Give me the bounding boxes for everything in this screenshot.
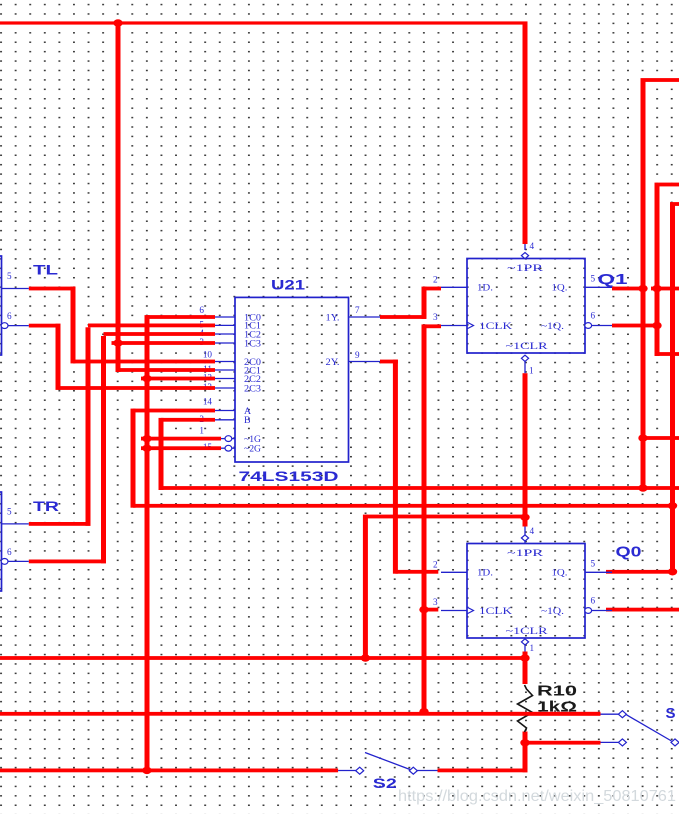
svg-text:1: 1 (199, 426, 204, 436)
svg-text:1: 1 (529, 366, 534, 376)
svg-text:6: 6 (591, 595, 596, 605)
svg-text:~1CLR: ~1CLR (506, 341, 549, 352)
svg-text:2Y.: 2Y. (326, 357, 340, 368)
svg-text:~1Q.: ~1Q. (541, 606, 564, 617)
svg-text:3: 3 (433, 312, 438, 322)
svg-text:1: 1 (530, 643, 535, 653)
svg-text:1D.: 1D. (477, 283, 493, 294)
svg-text:B: B (244, 415, 251, 426)
svg-text:~1CLR: ~1CLR (506, 626, 549, 637)
svg-text:6: 6 (7, 311, 12, 321)
svg-text:TR: TR (33, 499, 59, 514)
svg-text:9: 9 (355, 350, 360, 360)
svg-text:1Q.: 1Q. (552, 568, 568, 579)
svg-text:6: 6 (199, 305, 204, 315)
svg-text:6: 6 (591, 310, 596, 320)
svg-text:1C3: 1C3 (244, 338, 261, 349)
svg-text:4: 4 (530, 526, 535, 536)
svg-text:R10: R10 (537, 684, 577, 700)
svg-text:5: 5 (7, 506, 12, 516)
svg-text:1CLK: 1CLK (479, 606, 512, 617)
svg-text:TL: TL (33, 263, 58, 278)
svg-text:https://blog.csdn.net/weixin_5: https://blog.csdn.net/weixin_50810761 (398, 788, 676, 805)
svg-text:1Q.: 1Q. (552, 283, 568, 294)
svg-text:2: 2 (433, 274, 438, 284)
svg-text:S2: S2 (373, 776, 397, 791)
svg-text:6: 6 (7, 547, 12, 557)
svg-text:5: 5 (591, 559, 596, 569)
svg-text:Q0: Q0 (616, 544, 642, 561)
svg-text:5: 5 (7, 271, 12, 281)
svg-text:2C3: 2C3 (244, 383, 261, 394)
svg-text:4: 4 (530, 241, 535, 251)
svg-text:S: S (666, 705, 676, 722)
svg-text:~1PR: ~1PR (507, 548, 544, 559)
svg-text:~1Q.: ~1Q. (541, 321, 564, 332)
svg-text:74LS153D: 74LS153D (239, 469, 339, 484)
svg-text:1Y.: 1Y. (326, 312, 340, 323)
svg-text:10: 10 (203, 350, 213, 360)
svg-text:1CLK: 1CLK (479, 321, 512, 332)
svg-text:14: 14 (203, 397, 213, 407)
svg-text:2: 2 (433, 559, 438, 569)
svg-text:~1PR: ~1PR (507, 263, 544, 274)
svg-text:~2G: ~2G (244, 444, 261, 455)
svg-text:3: 3 (433, 597, 438, 607)
svg-text:Q1: Q1 (598, 271, 628, 288)
svg-text:1D.: 1D. (477, 568, 493, 579)
svg-text:1kΩ: 1kΩ (537, 700, 578, 716)
svg-text:5: 5 (591, 274, 596, 284)
svg-text:7: 7 (355, 305, 360, 315)
svg-text:U21: U21 (271, 278, 306, 293)
